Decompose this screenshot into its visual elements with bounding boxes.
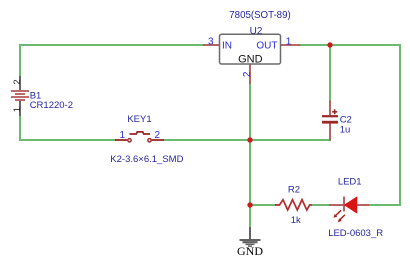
svg-text:1: 1 (12, 107, 23, 112)
svg-text:CR1220-2: CR1220-2 (30, 100, 73, 111)
svg-text:KEY1: KEY1 (127, 114, 151, 125)
svg-text:2: 2 (155, 130, 161, 141)
svg-text:LED1: LED1 (338, 176, 362, 187)
svg-text:R2: R2 (288, 185, 300, 196)
svg-text:3: 3 (208, 36, 214, 47)
svg-text:1: 1 (119, 130, 125, 141)
svg-text:2: 2 (12, 79, 23, 84)
svg-text:1: 1 (286, 36, 292, 47)
svg-text:GND: GND (238, 54, 263, 66)
svg-text:LED-0603_R: LED-0603_R (328, 228, 383, 239)
svg-text:K2-3.6×6.1_SMD: K2-3.6×6.1_SMD (110, 154, 183, 165)
svg-text:1u: 1u (340, 124, 351, 135)
svg-text:GND: GND (237, 244, 263, 258)
svg-text:7805(SOT-89): 7805(SOT-89) (229, 10, 290, 21)
svg-text:2: 2 (242, 71, 253, 77)
svg-text:IN: IN (222, 40, 232, 51)
svg-text:OUT: OUT (256, 40, 277, 51)
svg-text:1k: 1k (291, 215, 301, 226)
svg-text:U2: U2 (250, 26, 263, 37)
